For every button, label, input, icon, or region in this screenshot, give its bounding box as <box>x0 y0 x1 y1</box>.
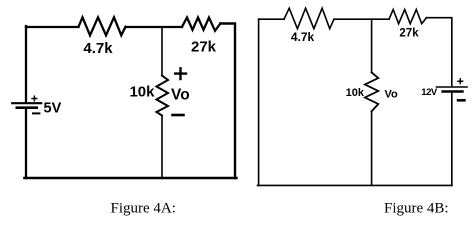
battery V1 minus sign <box>33 112 39 114</box>
svg-text:Vo: Vo <box>385 89 399 101</box>
resistor R2 27k (zigzag, top right) <box>182 18 220 31</box>
wire: middle branch upper (node to 10k) <box>161 27 163 76</box>
wire: top-right corner and right edge upper (4B) <box>426 18 451 86</box>
resistor R4 4.7k (zigzag) <box>284 8 334 29</box>
svg-text:4.7k: 4.7k <box>83 40 113 57</box>
svg-text:Figure 4B:: Figure 4B: <box>384 200 449 216</box>
svg-text:4.7k: 4.7k <box>291 30 315 44</box>
wire: middle branch lower <box>161 116 163 179</box>
battery V1 plate negative (short) <box>17 106 37 109</box>
svg-text:27k: 27k <box>191 39 217 56</box>
svg-text:Figure 4A:: Figure 4A: <box>111 200 176 216</box>
label Vo minus sign <box>173 114 184 117</box>
svg-text:12V: 12V <box>421 87 438 98</box>
wire: bottom <box>25 177 237 180</box>
wire: middle branch lower (4B) <box>371 111 373 185</box>
resistor R1 4.7k (zigzag, top left) <box>79 17 126 35</box>
wire: middle branch upper (4B) <box>371 19 373 72</box>
battery V1 plate positive (long) <box>12 102 41 104</box>
resistor R3 10k (vertical zigzag, middle branch) <box>157 76 169 116</box>
svg-text:5V: 5V <box>44 100 62 116</box>
wire: bottom (4B) <box>258 184 453 186</box>
label Vo plus sign <box>175 68 186 79</box>
wire: top middle segment (node to 27k) <box>126 26 183 28</box>
svg-text:Vo: Vo <box>171 87 190 104</box>
wire: top middle segment (4B) <box>334 18 389 20</box>
resistor R6 10k (vertical zigzag, 4B) <box>365 73 378 112</box>
battery V1 plus sign <box>32 96 37 100</box>
svg-text:27k: 27k <box>399 28 419 40</box>
wire: top-left segment <box>26 26 79 28</box>
wire: left edge lower <box>25 108 27 178</box>
battery V2 plus sign <box>458 79 463 84</box>
wire: left edge (4B) <box>258 19 260 185</box>
resistor R5 27k (zigzag) <box>389 10 426 24</box>
svg-text:10k: 10k <box>129 84 155 101</box>
battery V2 minus sign <box>458 99 464 102</box>
svg-text:10k: 10k <box>346 87 365 99</box>
wire: left edge upper <box>25 26 27 102</box>
wire: top-left segment (4B) <box>259 18 284 20</box>
wire: top-right corner and right edge <box>220 24 235 179</box>
wire: right edge lower (4B) <box>451 92 453 185</box>
battery V2 plate negative (short) <box>443 90 463 92</box>
battery V2 plate positive (long) <box>437 86 468 88</box>
